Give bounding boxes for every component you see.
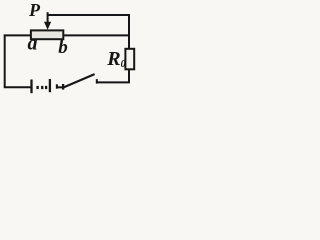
- svg-text:a: a: [28, 33, 38, 55]
- svg-text:b: b: [58, 37, 68, 58]
- svg-text:P: P: [28, 0, 41, 20]
